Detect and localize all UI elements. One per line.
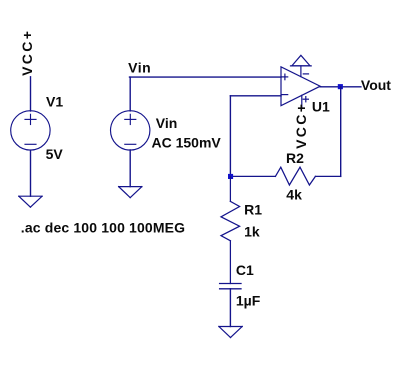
resistor R2: [231, 167, 341, 185]
ground (Vin): [119, 187, 142, 198]
resistor R1: [221, 176, 240, 283]
svg-text:V1: V1: [46, 94, 63, 110]
svg-text:AC 150mV: AC 150mV: [152, 135, 222, 151]
wire op-amp output: [320, 86, 361, 88]
svg-text:.ac dec 100 100 100MEG: .ac dec 100 100 100MEG: [21, 220, 185, 236]
wire Vin horizontal to op-amp: [130, 76, 282, 78]
wire C1 bottom: [229, 289, 231, 327]
wire V1 bottom: [30, 150, 32, 196]
wire inverting input horizontal: [230, 95, 281, 97]
svg-text:4k: 4k: [286, 186, 302, 202]
ground (V1): [19, 196, 42, 207]
capacitor C1: [220, 284, 241, 289]
wire Vin vertical drop: [129, 77, 131, 111]
svg-text:U1: U1: [312, 99, 330, 115]
svg-text:1k: 1k: [244, 224, 260, 240]
svg-text:Vin: Vin: [128, 59, 151, 75]
svg-text:Vout: Vout: [361, 77, 391, 93]
svg-text:VCC+: VCC+: [293, 102, 309, 149]
svg-text:1µF: 1µF: [236, 292, 261, 308]
svg-text:5V: 5V: [46, 146, 64, 162]
wire inverting input vertical: [229, 96, 231, 177]
node junction (inverting/R1/R2): [228, 174, 233, 179]
svg-text:VCC+: VCC+: [19, 29, 35, 76]
svg-text:C1: C1: [236, 262, 254, 278]
op-amp U1: [281, 55, 320, 108]
wire V1 top: [30, 77, 32, 111]
svg-text:R2: R2: [286, 150, 304, 166]
voltage source Vin: [111, 111, 150, 150]
wire feedback vertical: [340, 87, 342, 177]
svg-text:Vin: Vin: [156, 115, 178, 131]
node Vout junction: [338, 84, 343, 89]
svg-text:R1: R1: [244, 202, 262, 218]
voltage source V1: [11, 111, 50, 150]
ground (C1): [219, 327, 242, 338]
wire Vin source bottom: [129, 150, 131, 187]
